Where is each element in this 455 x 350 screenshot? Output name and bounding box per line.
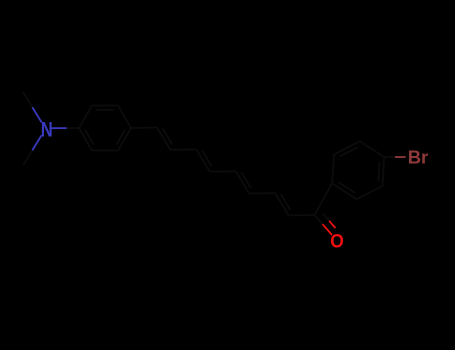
bond N-CH3 (upper methyl) [23,92,42,122]
bond N-C1 (N to ring A ipso) [52,127,79,129]
ring B inner double bond line [340,147,358,156]
ring A edge C6-C1 [79,128,92,151]
bond C9-ring B ipso [315,183,332,215]
ring B edge C4-C5 [383,157,385,186]
ring B inner double bond line [378,162,379,182]
svg-text:N: N [41,118,53,141]
chain double bond inner line C3=C4 [202,150,212,166]
chain bond C0-C1 [131,127,157,130]
svg-text:Br: Br [408,146,429,167]
svg-text:O: O [330,231,344,253]
ring B edge C2-C3 [334,141,360,154]
ring A edge C2-C3 [92,105,118,107]
chain bond C4-C5 [210,170,236,172]
chain bond C1-C2 [157,128,170,150]
ring B edge C6-C1 [332,183,357,199]
ring A edge C1-C2 [79,106,92,129]
carbonyl C=O second line [323,214,336,228]
chain bond C2-C3 [170,148,196,150]
chain bond C6-C7 [249,192,275,195]
ring A inner double bond line [85,129,94,144]
ring A inner double bond line [96,109,114,111]
chain bond C3-C4 [196,149,209,171]
ring B edge C5-C6 [357,186,383,199]
carbonyl C=O main line [315,215,332,235]
chain bond C7-C8 [275,193,288,215]
ring B inner double bond line [338,182,355,193]
ring A inner double bond line [116,129,125,144]
ring B edge C3-C4 [360,141,384,157]
chain double bond inner line C5=C6 [241,172,251,188]
bond C-Br [384,156,406,158]
chain bond C5-C6 [236,171,249,193]
ring A edge C3-C4 [118,106,131,129]
chain double bond inner line C7=C8 [281,194,291,210]
ring B edge C1-C2 [332,154,334,183]
chain double bond inner line C1=C2 [163,128,173,144]
chain bond C8-C9 [289,214,315,216]
ring A edge C4-C5 [118,128,131,151]
ring A edge C5-C6 [92,150,118,152]
bond N-CH3 (lower methyl) [23,135,42,165]
